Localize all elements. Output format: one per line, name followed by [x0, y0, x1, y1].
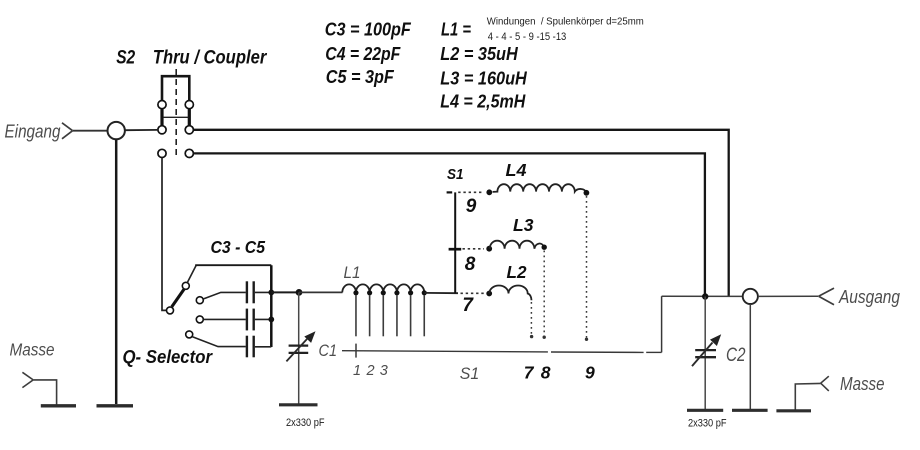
capacitor C4 [247, 309, 271, 331]
svg-text:2x330 pF: 2x330 pF [286, 417, 325, 429]
svg-text:Q- Selector: Q- Selector [123, 347, 213, 367]
connector arrow Masse right [821, 376, 829, 391]
svg-text:9: 9 [585, 362, 595, 382]
L1 tap wires [356, 295, 424, 336]
wire S1 rail segment 3 [646, 351, 661, 353]
L1 tap junctions [353, 290, 427, 295]
wire contact4 to C5 [192, 337, 245, 347]
switch Q-selector contact 4 [186, 331, 193, 338]
switch S1 tick position 8 [449, 248, 462, 251]
jack J2 Ausgang [743, 289, 758, 304]
ground Masse left [41, 404, 76, 407]
junction bus C4 [268, 317, 274, 323]
svg-text:L2: L2 [507, 262, 527, 282]
svg-text:Thru / Coupler: Thru / Coupler [153, 46, 268, 68]
switch S2 contact bottom-left [158, 149, 166, 157]
switch Q-selector contact 2 [196, 297, 203, 304]
switch S1 tick position 9 [447, 191, 453, 193]
wire S2 to Q-selector [162, 158, 166, 311]
wire jack J2 shield down [749, 304, 751, 409]
node L2 foot [530, 335, 533, 338]
wire contact3 to C4 [203, 318, 246, 320]
switch S2 pole arm left [160, 107, 163, 129]
node L3 end [542, 245, 547, 250]
svg-text:C3 = 100pF: C3 = 100pF [325, 19, 412, 39]
switch S2 axis (dashed) [175, 69, 177, 157]
node L4 end [584, 190, 590, 196]
wire thru path (S2 mid-right to output riser) [193, 130, 728, 296]
wire dotted to L2 [461, 292, 485, 294]
wire bus to tank node [271, 291, 299, 293]
svg-text:L4 = 2,5mH: L4 = 2,5mH [440, 91, 526, 111]
svg-text:Eingang: Eingang [5, 121, 62, 142]
inductor L2 [489, 286, 531, 301]
wire dotted L3 end down [543, 251, 545, 337]
node tank junction [296, 289, 303, 296]
wire capacitor bus [270, 265, 273, 347]
ground jack J2 [732, 409, 768, 412]
wire Masse right [795, 383, 820, 409]
switch Q-selector pivot [167, 307, 174, 314]
svg-text:Ausgang: Ausgang [838, 286, 900, 307]
svg-text:C4 = 22pF: C4 = 22pF [325, 44, 401, 64]
svg-text:L1 =: L1 = [441, 19, 471, 39]
wire jack shield down [115, 139, 118, 404]
switch S1 bus [454, 192, 456, 293]
wire Eingang to jack [73, 130, 107, 132]
switch S2 contact top-left [158, 101, 166, 109]
wire contact2 to C3 [203, 292, 246, 299]
switch Q-selector contact 1 [182, 282, 189, 289]
svg-text:S2: S2 [116, 46, 135, 68]
svg-text:C3 - C5: C3 - C5 [211, 237, 266, 257]
capacitor C1 (variable) [286, 331, 315, 361]
svg-text:1: 1 [353, 363, 361, 379]
switch S2 contact top-right [185, 101, 193, 109]
ground C2 [687, 409, 723, 412]
wire dotted position 9 [458, 191, 484, 193]
svg-text:9: 9 [466, 196, 477, 217]
svg-text:S1: S1 [447, 166, 464, 183]
svg-text:Windungen / Spulenkörper d=25: Windungen / Spulenkörper d=25mm [487, 16, 644, 27]
inductor L4 [493, 184, 587, 192]
wire rail riser to node [661, 296, 663, 352]
wire bypass top [195, 264, 271, 266]
node L3 foot [543, 336, 546, 339]
svg-text:S1: S1 [460, 365, 480, 383]
svg-text:C2: C2 [726, 345, 746, 366]
wire S1 rail segment 1 [342, 351, 548, 352]
node L3 start [486, 246, 492, 252]
svg-text:Masse: Masse [840, 373, 885, 394]
wire output node [662, 295, 743, 297]
svg-text:C1: C1 [319, 341, 338, 360]
svg-text:7: 7 [524, 362, 535, 382]
wire dotted position 8 [463, 248, 485, 250]
switch S1 wiper tick position 1 [355, 344, 357, 358]
inductor L3 [490, 241, 545, 249]
ground Masse right [776, 409, 811, 412]
capacitor C2 (variable) [692, 334, 721, 366]
svg-text:L4: L4 [506, 160, 527, 180]
wire dotted L2 end down [530, 302, 532, 336]
node L4 start [486, 189, 492, 195]
node L2 start [486, 291, 492, 297]
svg-text:C5 = 3pF: C5 = 3pF [326, 67, 395, 87]
ground C1 [279, 403, 318, 406]
wire dotted L4 end down [586, 196, 588, 338]
switch S2 thru bracket [162, 76, 189, 105]
svg-text:Masse: Masse [10, 340, 55, 360]
switch S2 pole arm right [188, 107, 191, 129]
wire jack to Ausgang arrow [758, 295, 818, 297]
connector arrow Eingang [62, 123, 73, 139]
wire S1 rail segment 2 [551, 351, 644, 353]
svg-text:3: 3 [380, 363, 388, 379]
connector arrow Ausgang [819, 288, 834, 305]
wire C1 branch [298, 292, 300, 404]
svg-text:2: 2 [366, 363, 375, 379]
capacitor C5 [247, 336, 271, 358]
switch Q-selector contact 3 [196, 316, 203, 323]
svg-text:L3 = 160uH: L3 = 160uH [440, 68, 527, 88]
switch Q-selector arm [172, 289, 184, 307]
wire node to L1 [299, 291, 343, 293]
svg-text:8: 8 [465, 254, 476, 275]
connector arrow Masse left [22, 372, 33, 387]
svg-text:2x330 pF: 2x330 pF [688, 417, 727, 429]
junction bus C3 [268, 290, 274, 296]
wire jack to S2 [125, 129, 158, 131]
wire contact1 to bypass [187, 265, 196, 282]
wire L1 to S1 bus [424, 292, 458, 294]
wire Masse left [33, 380, 56, 405]
ground jack J1 [97, 404, 134, 407]
svg-text:L2 = 35uH: L2 = 35uH [440, 44, 518, 64]
wire C2 branch [704, 297, 706, 410]
svg-text:L1: L1 [344, 264, 361, 282]
switch S2 contact bottom-right [185, 149, 193, 157]
switch S2 contact mid-left [158, 126, 166, 134]
node L4 foot [585, 338, 588, 341]
svg-text:7: 7 [462, 295, 474, 316]
inductor L1 [342, 284, 424, 292]
switch S2 contact mid-right [185, 126, 193, 134]
jack J1 Eingang [108, 122, 125, 139]
svg-text:8: 8 [541, 362, 551, 382]
svg-text:L3: L3 [513, 215, 534, 235]
switch S2 arm link [163, 116, 188, 118]
svg-text:4 - 4 - 5 - 9 -15 -13: 4 - 4 - 5 - 9 -15 -13 [488, 31, 567, 43]
junction output node [702, 293, 708, 299]
wire coupler path (S2 bottom-right to output node) [193, 153, 705, 294]
capacitor C3 [247, 281, 271, 303]
